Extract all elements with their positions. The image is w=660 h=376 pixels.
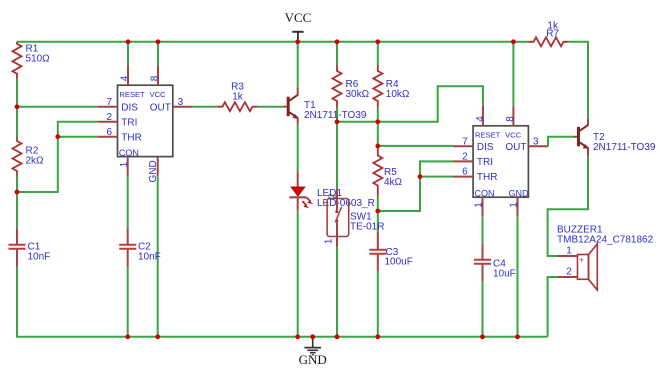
resistor R6 [333,65,342,107]
svg-text:1: 1 [324,238,335,244]
svg-text:100uF: 100uF [385,257,413,268]
wire VCC rail to R7 [513,41,528,43]
ground symbol [304,337,321,355]
capacitor C3 [369,232,386,272]
svg-text:GND: GND [148,160,159,182]
junction node GND/C3 [375,334,380,339]
op-amp U1 555 timer body [118,85,173,156]
svg-text:+: + [579,255,584,264]
svg-text:7: 7 [107,97,113,108]
svg-text:DIS: DIS [121,102,138,113]
junction node GND/SW1 [335,334,340,339]
wire VCC1 pin to rail [157,42,159,66]
U2 pin 1 CON stub [482,197,484,217]
wire OUT2 to T2 base [548,137,574,146]
U1 GND pin stub [157,157,159,177]
junction node GND/U2 [515,334,520,339]
svg-text:7: 7 [462,136,468,147]
svg-text:TE-01R: TE-01R [350,222,384,233]
wire SW1 bottom to ground rail [336,247,338,337]
wire buzzer pin2 to ground rail [548,277,558,337]
transistor T2 [573,119,589,157]
U2 pin 2 TRI stub [453,160,473,162]
svg-text:VCC: VCC [150,90,167,99]
wire R2 bottom to C1 top [16,175,18,229]
wire CON1 to C2 [127,177,129,229]
svg-text:VCC: VCC [285,10,312,25]
svg-text:6: 6 [462,167,468,178]
junction node R5/DIS2 [375,144,380,149]
junction node R6/SW1 [335,119,340,124]
wire VCC rail to VCC2 pin [512,42,514,106]
wire ground bottom rail [16,336,548,338]
svg-text:8: 8 [149,75,160,81]
wire R6 bottom to node [336,107,338,122]
resistor R7 [529,37,569,46]
svg-text:OUT: OUT [505,142,526,153]
wire T2 emitter to buzzer pin1 [548,156,588,256]
svg-text:2kΩ: 2kΩ [26,156,45,167]
svg-text:THR: THR [477,172,498,183]
U2 GND pin stub [517,197,519,217]
svg-text:10uF: 10uF [493,269,516,280]
svg-text:2: 2 [566,267,572,278]
svg-text:3: 3 [178,97,184,108]
svg-text:3: 3 [533,136,539,147]
wire RESET1 pin to rail [127,42,129,66]
svg-text:2: 2 [107,112,113,123]
svg-text:2N1711-TO39: 2N1711-TO39 [593,142,656,153]
svg-text:1: 1 [119,161,130,167]
LED LED1 [289,172,313,211]
wire THR2 to junction [420,176,453,178]
junction node TRI1/THR1 [55,134,60,139]
junction node VCC/VCC2/R7 [511,39,516,44]
U2 pin 6 THR stub [453,176,473,178]
wire C1 bottom to ground rail [16,266,18,337]
wire THR2 junction down to R5 bottom node [378,177,420,211]
junction node R2/C1 [15,190,20,195]
svg-text:DIS: DIS [477,142,494,153]
resistor R4 [373,65,382,107]
wire R5 top node to DIS2 [378,145,453,147]
resistor R1 [13,42,22,79]
wire LED cathode to ground rail [297,211,299,337]
capacitor C4 [474,244,491,281]
svg-text:2: 2 [462,151,468,162]
buzzer BUZZER1 [558,244,598,290]
wire VCC top rail [17,41,513,43]
wire R7 to T2 collector [569,42,589,119]
svg-text:4: 4 [119,75,130,81]
junction node GND/C4 [480,334,485,339]
svg-text:LED-0603_R: LED-0603_R [317,198,375,209]
wire VCC rail to T1 collector [297,42,299,88]
svg-text:RESET: RESET [119,90,145,99]
resistor R5 [373,146,382,196]
junction node VCC/R4 [375,39,380,44]
junction node TRI2/THR2 [418,174,423,179]
wire THR1 junction down to R2 bottom node [17,137,58,192]
wire GND1 pin to ground rail [157,177,159,337]
U1 pin 1 CON stub [127,157,129,177]
wire GND2 pin to ground rail [517,217,519,337]
wire C2 to ground rail [127,266,129,337]
switch SW1 [327,189,349,247]
svg-text:1: 1 [566,246,572,257]
U2 pin 4 RESET stub [482,106,484,126]
transistor T1 [283,88,299,125]
wire TRI2 to THR2 junction [420,161,453,176]
junction node R1/R2/DIS1 [15,104,20,109]
svg-text:CON: CON [475,189,495,199]
U2 pin 3 OUT stub [528,145,548,147]
junction node VCC/T1 collector [295,39,300,44]
junction node GND flag [310,334,315,339]
U1 pin 8 VCC stub [157,65,159,85]
wire node R1/R2 to DIS1 [17,106,98,108]
wire rail to R4 [377,42,379,65]
svg-text:VCC: VCC [505,131,522,140]
svg-text:2: 2 [327,193,338,199]
wire R4 node down to R5 top node [377,122,379,146]
junction node GND/LED [295,334,300,339]
svg-text:10nF: 10nF [28,252,51,263]
svg-text:30kΩ: 30kΩ [346,89,370,100]
junction node VCC/VCC1 [156,39,161,44]
svg-text:GND: GND [299,352,327,367]
resistor R3 [217,102,257,111]
resistor R2 [13,138,22,176]
svg-text:TMB12A24_C781862: TMB12A24_C781862 [557,235,654,246]
svg-text:RESET: RESET [475,131,501,140]
wire left rail R1-R2-C1 column [16,79,18,138]
U2 pin 7 DIS stub [453,145,473,147]
svg-text:R7: R7 [546,28,559,39]
svg-text:2N1711-TO39: 2N1711-TO39 [304,110,367,121]
svg-text:TRI: TRI [121,117,137,128]
capacitor C1 [9,229,26,267]
svg-text:10nF: 10nF [138,252,161,263]
U1 pin 2 TRI stub [98,121,118,123]
U1 pin 3 OUT stub [173,106,193,108]
wire C3 to ground rail [377,271,379,337]
svg-text:1: 1 [509,202,520,208]
wire R6/R4 node to RESET2 [337,86,483,122]
U1 pin 4 RESET stub [127,65,129,85]
svg-text:CON: CON [119,148,139,158]
wire C4 to ground rail [482,281,484,337]
svg-text:4: 4 [475,116,486,122]
junction node R5/C3 [375,209,380,214]
VCC power flag [292,32,303,42]
capacitor C2 [119,229,136,267]
U1 pin 6 THR stub [98,136,118,138]
junction node VCC/R6 [335,39,340,44]
wire rail to R6 [336,42,338,65]
wire R5 bottom to C3 [377,196,379,232]
svg-text:1: 1 [474,202,485,208]
wire R3 to T1 base [257,106,283,108]
junction node VCC/RESET1 [126,39,131,44]
wire OUT1 to R3 [193,106,218,108]
junction node R4/RESET2 [375,119,380,124]
svg-text:1k: 1k [232,92,244,103]
svg-text:6: 6 [107,127,113,138]
U2 pin 8 VCC stub [512,106,514,126]
svg-text:TRI: TRI [477,157,493,168]
wire node down to SW1 [336,122,338,189]
wire TRI1 to THR1 junction [58,122,98,137]
svg-text:THR: THR [121,132,142,143]
wire T1 emitter to LED anode [297,125,299,172]
svg-text:10kΩ: 10kΩ [386,89,410,100]
svg-text:OUT: OUT [150,102,171,113]
svg-text:510Ω: 510Ω [26,54,51,65]
wire R4 bottom to node [377,107,379,122]
junction node GND/U1 [155,334,160,339]
svg-text:4kΩ: 4kΩ [384,177,403,188]
svg-text:GND: GND [509,189,530,199]
op-amp U2 555 timer body [473,126,528,197]
junction node GND/C2 [125,334,130,339]
U1 pin 7 DIS stub [98,106,118,108]
svg-text:8: 8 [505,116,516,122]
wire THR1 junction to pin [58,136,98,138]
wire CON2 to C4 [482,217,484,244]
